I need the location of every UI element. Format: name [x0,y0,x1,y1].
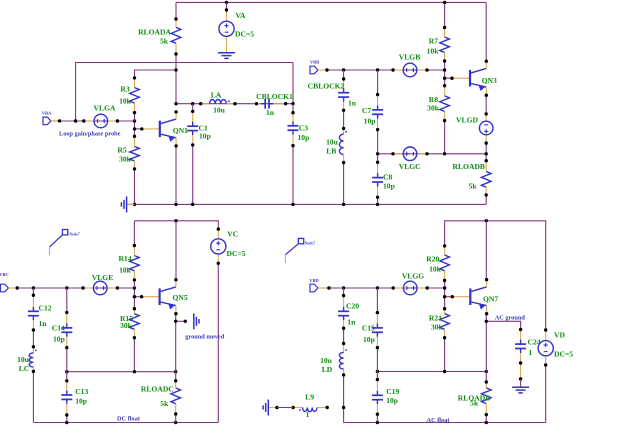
wire: C7/C8 mid junction row2 B (VLGC row) [377,130,379,163]
capacitor C1 10p [187,110,211,147]
node marker Node7 (section C) [62,230,67,235]
svg-text:10p: 10p [363,335,375,344]
resistor RLOADB 5k [453,159,492,197]
svg-text:1n: 1n [39,319,48,328]
svg-text:C14: C14 [52,324,65,333]
svg-text:AC ground: AC ground [495,315,526,322]
wire: C14 top from input row [66,288,68,312]
wire: C20 to LD link [343,328,345,343]
capacitor C8 10p [372,161,395,199]
wire: R15 bottom to row2 C [133,338,135,372]
svg-text:VBD: VBD [309,278,319,283]
resistor R14 10k [118,244,139,282]
voltage source VC [211,227,246,265]
transistor QN1 [142,128,160,130]
capacitor CBLOCK1 1n [255,92,293,117]
capacitor C20 1n [338,294,359,330]
voltage source VLGB [391,53,428,77]
svg-text:Node7: Node7 [69,233,79,237]
svg-text:DC=5: DC=5 [227,249,246,258]
svg-text:CBLOCK1: CBLOCK1 [256,92,293,101]
wire: DC float rail [33,422,218,424]
wire: C12 to LC link [32,330,34,347]
inductor LC 10u [17,345,37,373]
voltage source VA [219,8,254,44]
capacitor C19 10p [372,378,400,416]
wire: output node A vertical into CBLOCK1/C3 junction [292,63,294,104]
node: L9 junction [342,406,345,409]
svg-text:10p: 10p [386,396,398,405]
ground (earth) below VA [218,44,235,58]
svg-text:AC float: AC float [427,417,451,424]
svg-text:QN1: QN1 [173,126,188,135]
inductor LD 10u [320,342,347,377]
node: QN5 collector tap on VCC rail C [174,219,177,222]
wire: LC bottom to DC-float rail [32,371,34,422]
svg-text:VC: VC [227,230,238,239]
svg-text:10u: 10u [326,137,339,146]
resistor R15 30k [120,307,139,339]
inductor LB 10u [326,127,347,165]
wire: ground moved stub row [176,320,186,322]
wire: row2 C (C14/C13 to R15 to emitter) [67,371,176,373]
svg-text:RLOADC: RLOADC [141,385,174,394]
svg-text:VBA: VBA [42,110,52,115]
capacitor C13 10p [61,379,88,417]
svg-text:R21: R21 [429,313,442,322]
resistor R5 30k [117,135,139,171]
voltage source VLGC [391,147,428,171]
wire: AC float rail [344,422,546,424]
svg-text:ground moved: ground moved [185,334,224,341]
svg-text:LD: LD [322,365,333,374]
wire: RLOADC bottom to rail [175,414,177,423]
svg-text:C12: C12 [39,304,52,313]
svg-text:30k: 30k [427,103,440,112]
svg-text:30k: 30k [119,155,132,164]
wire: QN7 base wire [445,296,452,298]
resistor R3 10k [119,76,139,114]
svg-text:VLGB: VLGB [399,53,421,62]
svg-text:10u: 10u [213,106,226,115]
wire: QN5 collector drop [175,221,177,279]
inductor L9 1 [291,393,329,419]
svg-text:R7: R7 [429,37,438,46]
wire: RLOADD top link [485,372,487,383]
wire: RLOADC top link [175,372,177,381]
port VBC [0,272,19,292]
svg-text:DC=5: DC=5 [554,350,573,359]
voltage source VLGE [81,273,119,295]
wire: C1 top link [192,104,194,112]
svg-text:LB: LB [326,147,336,156]
svg-text:10p: 10p [199,131,211,140]
voltage source VD [538,328,573,366]
wire: C3 bottom to ground rail [292,146,294,205]
transistor QN3 [452,77,470,79]
svg-text:R3: R3 [120,85,129,94]
port VBD [309,278,330,292]
wire: R14 bottom link [133,280,135,288]
resistor RLOADA 5k [138,17,181,55]
svg-text:RLOADB: RLOADB [453,162,486,171]
svg-text:1: 1 [529,348,533,357]
svg-text:10k: 10k [429,265,442,274]
wire: VC bottom down to DC-float rail [217,263,219,422]
wire: RLOADD bottom to rail [485,415,487,423]
svg-text:10k: 10k [119,97,132,106]
wire: row2 D (C15/C19 to R21 to emitter) [377,371,486,373]
wire: input row C (VBC to divider) [8,287,134,289]
wire: C3 top link [292,104,294,113]
svg-text:1n: 1n [348,99,357,108]
svg-text:DC=5: DC=5 [235,30,254,39]
wire: QN3 collector to top rail [485,2,487,61]
resistor RLOADC 5k [141,379,181,416]
wire: collector node row A (to LA, CBLOCK1, C3) [176,103,293,105]
wire: VD bottom to AC float rail [545,365,547,423]
wire: ground rail A/B [127,203,486,205]
svg-text:30k: 30k [120,321,133,330]
ground (earth) below C24 [512,386,529,388]
wire: C15 top from input row [376,288,378,313]
wire: R21 bottom to row2 D [444,338,446,372]
svg-text:1n: 1n [266,108,275,117]
wire: top rail to RLOADA top [175,2,177,19]
wire: input row D (VBD to divider) [318,287,445,289]
svg-text:VLGD: VLGD [456,116,478,125]
capacitor C12 1n [28,294,52,332]
svg-text:10k: 10k [119,265,132,274]
svg-text:QN5: QN5 [173,293,188,302]
wire: top rail to R7 top [444,2,446,27]
wire: AC ground wire to C24 [486,321,520,329]
wire: VCC rail D (R20 to QN7 collector to VD) [445,221,546,330]
wire: QN5 emitter to ground-moved row [175,313,177,372]
node: R5/ground-rail junction [133,203,136,206]
svg-text:5k: 5k [160,37,169,46]
svg-text:5k: 5k [470,399,479,408]
voltage source VLGA [82,104,119,128]
wire: QN3 emitter to VLGD [485,94,487,114]
svg-text:LA: LA [211,91,222,100]
svg-text:VLGC: VLGC [399,162,421,171]
wire: R7 bottom junction to base of QN3 [444,61,446,86]
port VBB [310,59,329,74]
capacitor C3 10p [288,111,310,147]
svg-text:10p: 10p [383,182,395,191]
wire: CBLOCK2 to LB link [343,110,345,128]
svg-text:1: 1 [306,410,310,419]
wire: QN7 emitter to AC-ground row and RLOADD [485,313,487,372]
wire: VA branch from top rail [226,2,228,10]
resistor R7 10k [427,26,450,63]
svg-text:VLGA: VLGA [94,104,116,113]
wire: feedback net A from output node to input [76,63,293,122]
svg-text:QN3: QN3 [482,76,497,85]
svg-text:C20: C20 [346,302,359,311]
wire: C20 top link [343,288,345,296]
node marker Node7 (section D) [298,238,303,243]
wire: top VCC rail A/B [176,1,486,3]
svg-text:10p: 10p [364,117,376,126]
wire: C13 chain row2 to rail [66,372,68,381]
svg-text:5k: 5k [469,182,478,191]
node: VA tap on top rail [225,1,228,4]
svg-text:VLGE: VLGE [92,273,114,282]
node: feedback junction on input row A [74,119,77,122]
wire: VLGD bottom to RLOADB junction [485,143,487,161]
wire: QN1 emitter to ground rail [175,145,177,205]
ground (right-pointing) - ground moved [185,313,224,340]
wire: QN5 base wire [133,288,135,309]
wire: RLOADB bottom to ground rail [485,195,487,204]
capacitor C14 10p [52,311,73,350]
svg-text:LC: LC [19,364,30,373]
svg-text:10p: 10p [75,397,87,406]
svg-text:C15: C15 [362,324,375,333]
resistor R8 30k [427,84,449,122]
svg-text:C3: C3 [299,124,308,133]
wire: RLOADA bottom to collector node QN1 [175,54,177,104]
wire: QN3 base wire [445,77,452,79]
svg-text:L9: L9 [305,393,314,402]
svg-text:Node7: Node7 [305,241,315,245]
inductor LA 10u [199,91,237,115]
wire: C7 top from VBB row [377,70,379,95]
resistor RLOADD 5k [458,380,491,416]
svg-text:DC float: DC float [117,416,141,423]
wire: QN7 collector drop [485,221,487,279]
wire: C12 top link [32,288,34,295]
resistor R20 10k [426,244,449,282]
wire: divider feed A (RLOADA bottom to R3 top) [135,70,177,78]
wire: C1 bottom to ground rail [192,144,194,204]
ground (left-pointing) at rail A end [121,196,134,212]
wire: input row A (VBA to divider) [51,120,135,122]
wire: VBB input row [318,69,445,71]
svg-text:R5: R5 [117,146,126,155]
svg-text:VBC: VBC [0,272,9,277]
wire: R8 bottom to VLGC row [444,121,446,154]
svg-text:QN7: QN7 [483,294,498,303]
svg-text:C13: C13 [75,387,88,396]
svg-text:1n: 1n [347,318,356,327]
voltage source VLGD [456,112,493,145]
svg-text:VA: VA [236,11,247,20]
wire: C14 bottom to row2 [66,348,68,372]
capacitor C15 10p [362,311,383,349]
wire: VCC rail C (VC to R14/collector) [134,221,218,229]
capacitor C7 10p [362,93,383,131]
node: R7 tap on top rail [443,1,446,4]
svg-text:C8: C8 [383,173,392,182]
wire: R3 bottom link [134,113,136,121]
svg-text:VLGG: VLGG [402,272,424,281]
svg-text:30k: 30k [431,323,444,332]
wire: C19 chain row2 to rail [376,372,378,380]
wire: C15 bottom to row2 [376,348,378,372]
svg-text:R20: R20 [426,255,439,264]
svg-text:C7: C7 [362,106,371,115]
wire: CBLOCK2 top link [343,70,345,79]
capacitor C24 1 [515,328,541,365]
node: QN7 collector tap on VCC rail D [485,219,488,222]
svg-text:Loop gain/phase probe: Loop gain/phase probe [59,131,121,138]
voltage source VLGG [392,272,429,295]
svg-text:10p: 10p [298,133,310,142]
svg-text:10u: 10u [17,355,30,364]
port VBA [42,110,61,124]
svg-text:10u: 10u [320,356,333,365]
svg-text:C19: C19 [386,387,399,396]
svg-text:R14: R14 [118,254,131,263]
svg-text:10p: 10p [53,335,65,344]
wire: R14 top feed [133,221,135,246]
ground (left-pointing) at L9 [263,400,293,416]
svg-text:VD: VD [554,331,565,340]
svg-text:10k: 10k [427,47,440,56]
wire: base wire QN1 row [134,121,136,136]
resistor R21 30k [429,307,449,339]
svg-text:RLOADA: RLOADA [138,27,171,36]
capacitor CBLOCK2 1n [308,77,357,112]
svg-text:5k: 5k [160,399,169,408]
wire: C8 bottom to ground rail [377,197,379,204]
wire: R20 bottom junction to QN7 base [444,281,446,309]
svg-text:CBLOCK2: CBLOCK2 [308,82,345,91]
wire: LD bottom to L9 junction to rail [343,375,345,423]
wire: R5 bottom to ground rail [134,169,136,205]
transistor QN7 [452,296,470,298]
wire: C24 bottom to earth ground [520,363,522,379]
wire: LB bottom to ground rail [343,163,345,205]
transistor QN5 [142,296,160,298]
svg-text:VBB: VBB [310,59,319,64]
